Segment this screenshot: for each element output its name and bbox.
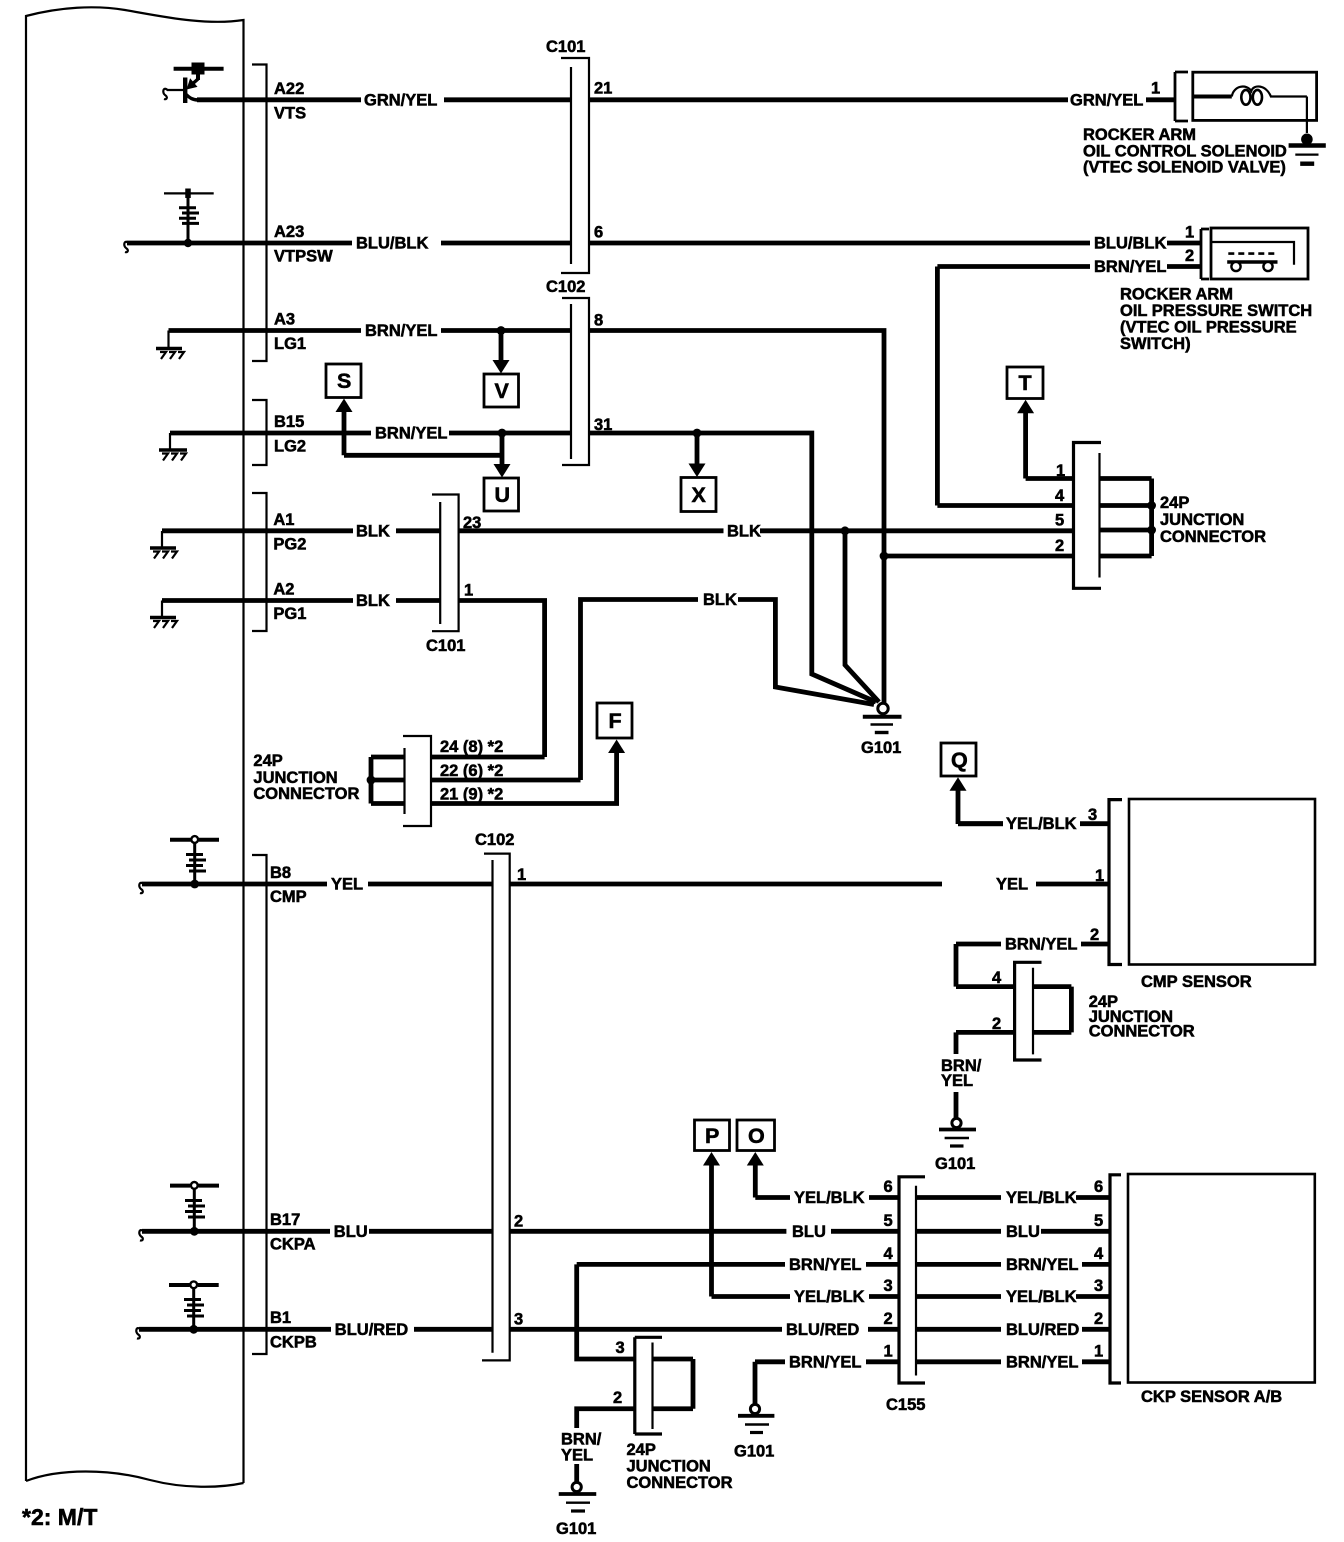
pin label B8 CMP: [270, 864, 307, 906]
wire junction CMP pin 4: [956, 969, 1015, 987]
svg-text:GRN/YEL: GRN/YEL: [1070, 91, 1143, 109]
svg-text:YEL/BLK: YEL/BLK: [1006, 1288, 1077, 1306]
svg-text:YEL: YEL: [561, 1447, 593, 1465]
svg-text:BLU: BLU: [1006, 1223, 1040, 1241]
wire A2 BLK to C101 pin 1: [162, 582, 545, 758]
wire CMP pin 3 YEL/BLK: [958, 806, 1109, 833]
letter box U: [484, 464, 519, 511]
svg-text:8: 8: [594, 312, 603, 330]
svg-text:1: 1: [884, 1343, 893, 1361]
wire B8 YEL to CMP pin 1: [139, 866, 1109, 894]
svg-text:2: 2: [514, 1213, 523, 1231]
svg-text:24 (8) *2: 24 (8) *2: [440, 738, 503, 756]
svg-text:21 (9) *2: 21 (9) *2: [440, 786, 503, 804]
wire A23 BLU/BLK to C101 pin 6: [124, 224, 1201, 253]
svg-text:BLU/BLK: BLU/BLK: [1094, 235, 1166, 253]
svg-text:BLU/RED: BLU/RED: [1006, 1321, 1079, 1339]
svg-text:BLK: BLK: [703, 591, 737, 609]
svg-text:CONNECTOR: CONNECTOR: [627, 1474, 733, 1492]
svg-text:JUNCTION: JUNCTION: [1160, 511, 1244, 529]
wire junction pin 1 row: [1026, 462, 1074, 480]
svg-text:S: S: [337, 369, 351, 393]
wire A1 BLK to C101 pin 23 and junction pin 5: [162, 514, 1074, 702]
svg-text:LG1: LG1: [274, 335, 306, 353]
ECM connector bracket B15: [252, 400, 267, 465]
ECM connector bracket A1-A2: [252, 493, 267, 631]
svg-text:C155: C155: [886, 1396, 925, 1414]
svg-text:YEL/BLK: YEL/BLK: [1006, 1189, 1077, 1207]
svg-text:CONNECTOR: CONNECTOR: [1160, 528, 1266, 546]
resistor R1 (VTPSW pull-up): [164, 189, 214, 248]
sensor resistor R3 (CKPA input): [170, 1182, 219, 1236]
transistor Q1 (VTS driver): [163, 63, 223, 104]
svg-text:3: 3: [1088, 806, 1097, 824]
svg-text:1: 1: [1185, 224, 1194, 242]
sensor resistor R2 (CMP input): [170, 836, 219, 888]
svg-text:SWITCH): SWITCH): [1120, 335, 1191, 353]
wire BRN/YEL from pressure switch pin 2: [937, 247, 1201, 506]
wire A3 BRN/YEL to C102 pin 8: [169, 312, 889, 705]
svg-text:BRN/YEL: BRN/YEL: [375, 425, 447, 443]
pin label A22 VTS: [274, 80, 306, 123]
svg-text:YEL: YEL: [331, 876, 363, 894]
svg-text:BLU/RED: BLU/RED: [786, 1321, 859, 1339]
CMP pin 2 BRN/YEL: [956, 926, 1109, 987]
svg-text:2: 2: [1094, 1310, 1103, 1328]
svg-text:BRN/YEL: BRN/YEL: [1006, 1353, 1078, 1371]
connector C101 (upper): [546, 38, 589, 273]
wire C155 row 6 YEL/BLK: [755, 1178, 1110, 1207]
wire B1 BLU/RED to C155 pin 2: [136, 1311, 899, 1339]
pin label A3 LG1: [274, 311, 306, 354]
ground G101 (top middle): [861, 703, 902, 757]
ground G101 (C155 row1): [734, 1404, 774, 1460]
svg-text:24P: 24P: [627, 1441, 656, 1459]
svg-text:1: 1: [1094, 1343, 1103, 1361]
svg-text:ROCKER ARM: ROCKER ARM: [1083, 126, 1196, 144]
CMP sensor box: [1129, 799, 1315, 991]
letter box T: [1007, 367, 1043, 479]
svg-text:C101: C101: [546, 38, 585, 56]
24P junction connector (CMP): [1013, 962, 1195, 1060]
svg-text:3: 3: [884, 1277, 893, 1295]
ground symbol PG2 internal: [150, 531, 177, 559]
svg-text:OIL PRESSURE SWITCH: OIL PRESSURE SWITCH: [1120, 302, 1312, 320]
svg-text:2: 2: [1055, 537, 1064, 555]
svg-text:YEL/BLK: YEL/BLK: [794, 1189, 865, 1207]
wire B15 BRN/YEL to C102 pin 31: [170, 416, 876, 702]
svg-text:BLK: BLK: [356, 592, 390, 610]
svg-text:T: T: [1019, 371, 1032, 395]
svg-text:BLU: BLU: [792, 1223, 826, 1241]
wire C155 row 1 BRN/YEL: [755, 1343, 1110, 1405]
wire junction CMP pin 2 to ground: [941, 1015, 1015, 1118]
wire junction pin 2 row: [884, 537, 1074, 556]
wire junction pin 2 to ground: [561, 1409, 635, 1482]
svg-text:VTS: VTS: [274, 105, 306, 123]
svg-text:4: 4: [992, 969, 1002, 987]
svg-text:B15: B15: [274, 413, 304, 431]
letter box F: [597, 703, 632, 753]
svg-text:2: 2: [1090, 926, 1099, 944]
svg-text:23: 23: [463, 514, 481, 532]
svg-text:6: 6: [884, 1178, 893, 1196]
wire C155 row 3 YEL/BLK: [712, 1277, 1111, 1306]
svg-text:BLK: BLK: [356, 522, 390, 540]
svg-text:G101: G101: [556, 1520, 596, 1538]
svg-text:CKP SENSOR A/B: CKP SENSOR A/B: [1141, 1388, 1282, 1406]
C155 row 2 BLU/RED right: [884, 1310, 1111, 1339]
ground G101 (CMP): [935, 1118, 976, 1173]
pin label A2 PG1: [273, 581, 306, 624]
rocker arm oil pressure switch: [1201, 228, 1308, 279]
svg-text:1: 1: [1056, 462, 1065, 480]
label rocker arm oil control solenoid: [1083, 126, 1287, 177]
ground G101 (bottom left): [556, 1482, 596, 1538]
svg-text:BLU/RED: BLU/RED: [335, 1321, 408, 1339]
svg-text:C102: C102: [546, 278, 585, 296]
letter box O: [737, 1120, 775, 1198]
svg-text:CKPA: CKPA: [270, 1236, 316, 1254]
svg-text:CKPB: CKPB: [270, 1334, 317, 1352]
ECM connector bracket B8-B1: [252, 855, 267, 1354]
wire B17 BLU to C155 pin 5: [139, 1213, 899, 1241]
svg-text:P: P: [705, 1124, 719, 1148]
svg-text:YEL: YEL: [941, 1072, 973, 1090]
wire 21 (9) *2 row: [431, 752, 617, 804]
svg-text:LG2: LG2: [274, 438, 306, 456]
sensor resistor R4 (CKPB input): [169, 1281, 219, 1333]
svg-text:CMP SENSOR: CMP SENSOR: [1141, 973, 1252, 991]
svg-text:2: 2: [884, 1310, 893, 1328]
svg-text:X: X: [692, 483, 707, 507]
svg-text:YEL: YEL: [996, 876, 1028, 894]
CKP sensor box: [1128, 1174, 1315, 1406]
ground symbol LG1 internal: [156, 331, 184, 360]
ground symbol LG2 internal: [159, 433, 187, 461]
svg-text:C101: C101: [426, 637, 465, 655]
svg-text:ROCKER ARM: ROCKER ARM: [1120, 286, 1233, 304]
svg-text:GRN/YEL: GRN/YEL: [364, 91, 437, 109]
wire C155 row 5 BLU: [884, 1212, 1111, 1241]
svg-text:BRN/YEL: BRN/YEL: [789, 1256, 861, 1274]
wire 24 (8) *2 row: [431, 738, 545, 757]
svg-text:4: 4: [1094, 1245, 1104, 1263]
wire C155 row 4 BRN/YEL: [577, 1245, 1110, 1274]
svg-text:24P: 24P: [1160, 494, 1189, 512]
label rocker arm oil pressure switch: [1120, 286, 1312, 354]
svg-text:F: F: [609, 709, 622, 733]
wire 22 (6) *2 row: [431, 762, 581, 780]
wire A22 GRN/YEL to C101 pin 21: [197, 80, 1175, 110]
letter box S: [326, 364, 361, 412]
svg-text:1: 1: [517, 866, 526, 884]
svg-text:5: 5: [1055, 512, 1064, 530]
svg-text:CONNECTOR: CONNECTOR: [253, 785, 359, 803]
letter box V: [484, 333, 519, 407]
wire junction pin 4 row: [937, 487, 1073, 506]
svg-text:1: 1: [1151, 80, 1160, 98]
svg-text:Q: Q: [951, 748, 968, 772]
svg-text:O: O: [748, 1124, 765, 1148]
svg-text:B1: B1: [270, 1309, 291, 1327]
svg-text:24P: 24P: [253, 752, 282, 770]
svg-text:4: 4: [1055, 487, 1065, 505]
svg-text:3: 3: [1094, 1277, 1103, 1295]
svg-text:2: 2: [992, 1015, 1001, 1033]
svg-text:VTPSW: VTPSW: [274, 248, 333, 266]
svg-text:1: 1: [464, 582, 473, 600]
pin label A1 PG2: [273, 511, 306, 554]
CKP sensor connector bracket: [1110, 1175, 1121, 1383]
svg-text:BRN/YEL: BRN/YEL: [1006, 1256, 1078, 1274]
pin label B17 CKPA: [270, 1211, 316, 1254]
svg-text:PG1: PG1: [273, 605, 306, 623]
svg-text:YEL/BLK: YEL/BLK: [794, 1288, 865, 1306]
svg-text:6: 6: [1094, 1178, 1103, 1196]
wire branch to S and U: [344, 412, 502, 466]
svg-text:21: 21: [594, 80, 612, 98]
svg-text:B8: B8: [270, 864, 291, 882]
svg-text:A2: A2: [273, 581, 294, 599]
ECM body outline: [26, 7, 244, 1486]
connector C155: [886, 1177, 925, 1414]
svg-text:PG2: PG2: [273, 536, 306, 554]
svg-text:6: 6: [594, 224, 603, 242]
letter box Q: [941, 743, 1003, 824]
svg-text:(VTEC SOLENOID VALVE): (VTEC SOLENOID VALVE): [1083, 159, 1286, 177]
pin label B15 LG2: [274, 413, 306, 456]
24P junction connector (right upper): [1074, 443, 1267, 589]
svg-text:A23: A23: [274, 223, 304, 241]
ground symbol PG1 internal: [150, 601, 177, 629]
svg-text:BRN/YEL: BRN/YEL: [789, 1353, 861, 1371]
svg-text:A22: A22: [274, 80, 304, 98]
svg-text:B17: B17: [270, 1211, 300, 1229]
svg-text:4: 4: [884, 1245, 894, 1263]
24P junction connector (bottom): [613, 1337, 733, 1492]
svg-text:2: 2: [613, 1389, 622, 1407]
svg-text:G101: G101: [861, 739, 901, 757]
svg-text:*2: M/T: *2: M/T: [22, 1504, 97, 1530]
connector C102 (upper): [546, 278, 589, 465]
svg-text:G101: G101: [734, 1443, 774, 1461]
svg-text:BRN/YEL: BRN/YEL: [1094, 258, 1166, 276]
letter box X: [681, 435, 716, 512]
svg-text:BRN/YEL: BRN/YEL: [1005, 936, 1077, 954]
pin label A23 VTPSW: [274, 223, 333, 266]
connector C102 (long): [475, 831, 514, 1360]
wire BLK branch to G101: [581, 591, 875, 780]
svg-text:G101: G101: [935, 1155, 975, 1173]
svg-text:3: 3: [616, 1339, 625, 1357]
svg-text:U: U: [495, 483, 511, 507]
svg-text:BLU: BLU: [334, 1223, 368, 1241]
svg-text:5: 5: [1094, 1212, 1103, 1230]
svg-text:V: V: [495, 379, 510, 403]
svg-text:JUNCTION: JUNCTION: [627, 1458, 711, 1476]
ECM connector bracket A22-A3: [252, 65, 267, 362]
svg-text:A1: A1: [273, 511, 294, 529]
svg-text:(VTEC OIL PRESSURE: (VTEC OIL PRESSURE: [1120, 319, 1297, 337]
svg-text:31: 31: [594, 416, 612, 434]
svg-text:2: 2: [1185, 247, 1194, 265]
svg-text:BLU/BLK: BLU/BLK: [356, 235, 428, 253]
wire BRN/YEL branch to bottom junction pin 3: [577, 1264, 635, 1359]
24P junction connector (lower left): [253, 736, 431, 826]
svg-text:BRN/YEL: BRN/YEL: [365, 322, 437, 340]
svg-text:1: 1: [1095, 867, 1104, 885]
svg-text:BLK: BLK: [727, 522, 761, 540]
svg-text:CMP: CMP: [270, 888, 307, 906]
pin label B1 CKPB: [270, 1309, 317, 1352]
CMP sensor connector bracket: [1109, 800, 1122, 965]
svg-text:C102: C102: [475, 831, 514, 849]
svg-text:5: 5: [884, 1212, 893, 1230]
rocker arm oil control solenoid: [1175, 72, 1317, 133]
svg-text:CONNECTOR: CONNECTOR: [1089, 1023, 1195, 1041]
svg-text:22 (6) *2: 22 (6) *2: [440, 762, 503, 780]
svg-text:3: 3: [514, 1311, 523, 1329]
connector C101 (lower): [426, 495, 465, 656]
letter box P: [695, 1120, 730, 1297]
svg-text:A3: A3: [274, 311, 295, 329]
solenoid ground: [1289, 134, 1326, 164]
svg-text:YEL/BLK: YEL/BLK: [1006, 815, 1077, 833]
